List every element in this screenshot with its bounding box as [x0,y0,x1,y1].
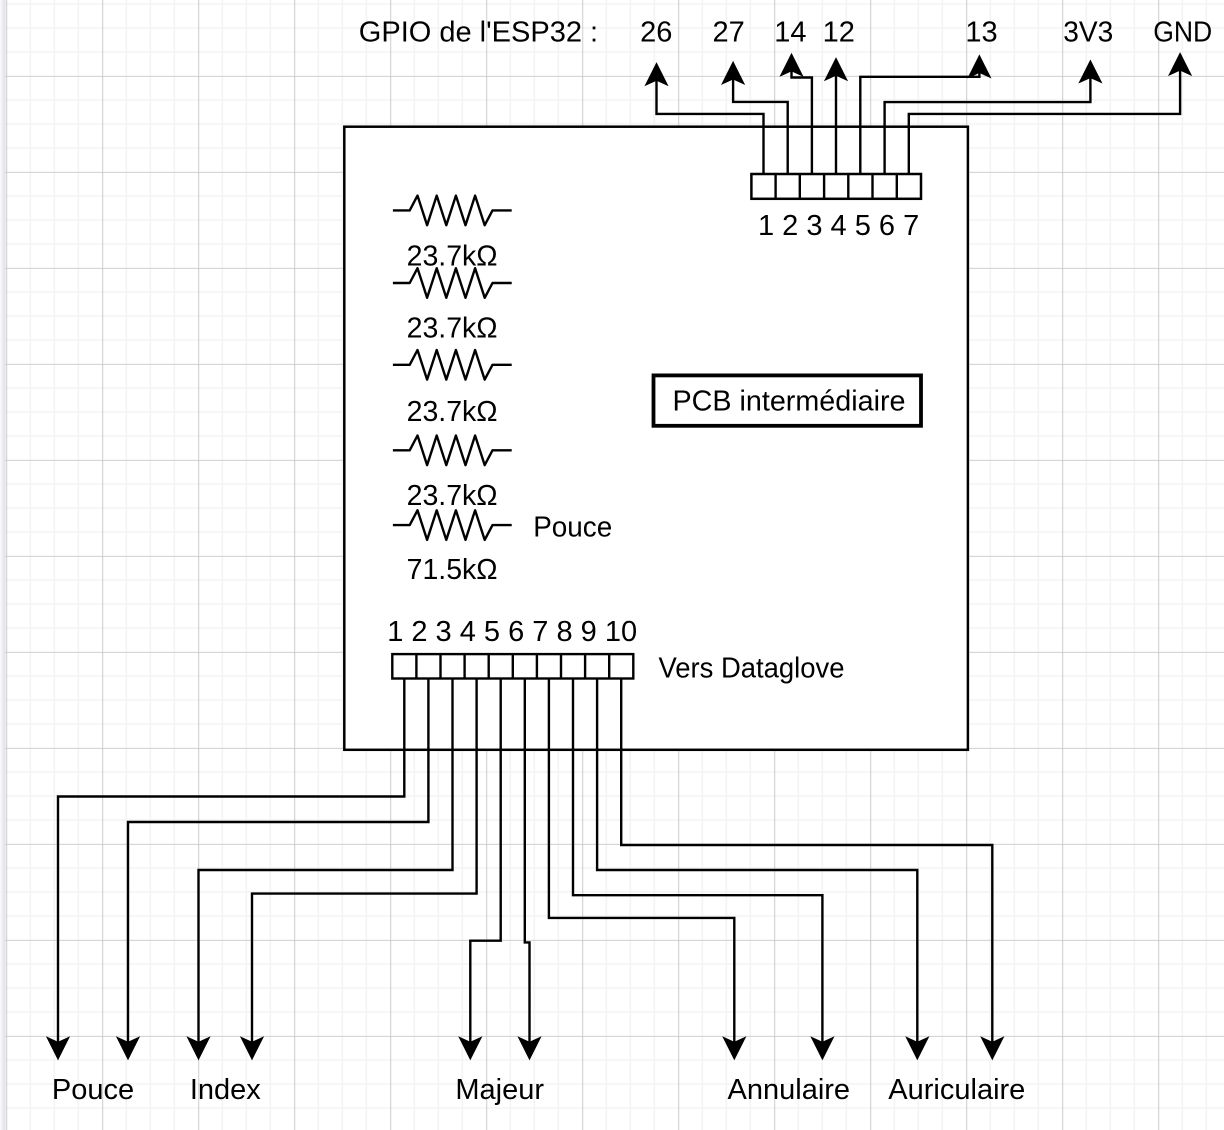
svg-text:1 2 3 4 5 6 7 8 9 10: 1 2 3 4 5 6 7 8 9 10 [387,616,637,648]
svg-text:71.5kΩ: 71.5kΩ [407,554,498,586]
svg-text:GND: GND [1153,16,1212,48]
svg-text:Index: Index [190,1074,261,1106]
svg-text:27: 27 [712,16,744,48]
svg-text:23.7kΩ: 23.7kΩ [407,240,498,272]
svg-text:Auriculaire: Auriculaire [888,1074,1025,1106]
svg-text:PCB intermédiaire: PCB intermédiaire [673,386,906,418]
svg-text:23.7kΩ: 23.7kΩ [407,480,498,512]
svg-text:12: 12 [823,16,855,48]
svg-text:Majeur: Majeur [455,1074,544,1106]
svg-text:1 2 3 4 5 6 7: 1 2 3 4 5 6 7 [758,210,919,242]
svg-text:23.7kΩ: 23.7kΩ [407,312,498,344]
svg-text:3V3: 3V3 [1063,16,1113,48]
svg-text:26: 26 [640,16,672,48]
svg-text:Vers Dataglove: Vers Dataglove [659,653,845,685]
svg-text:14: 14 [774,16,806,48]
svg-text:Annulaire: Annulaire [728,1074,851,1106]
svg-text:Pouce: Pouce [52,1074,134,1106]
svg-text:13: 13 [965,16,997,48]
svg-text:Pouce: Pouce [533,511,612,543]
svg-text:23.7kΩ: 23.7kΩ [407,396,498,428]
svg-text:GPIO de l'ESP32 :: GPIO de l'ESP32 : [359,16,598,48]
